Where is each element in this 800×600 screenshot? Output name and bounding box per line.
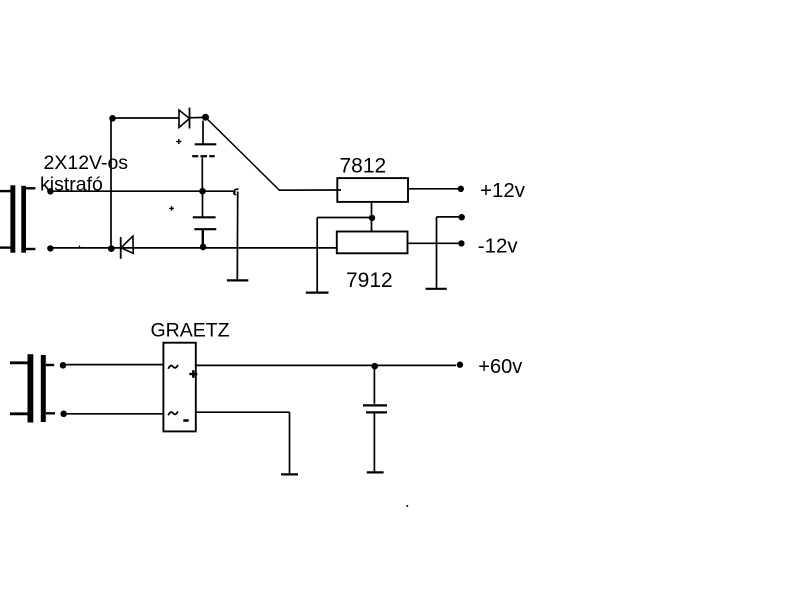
node dot T2 top terminal <box>60 362 67 369</box>
capacitor C1 plus sign <box>176 139 181 144</box>
capacitor C3 <box>363 367 387 471</box>
node dot T1 secondary bottom terminal <box>47 245 53 251</box>
wire middle rail (center tap) <box>47 190 233 192</box>
diode D1 <box>179 108 190 129</box>
bridge minus pin mark <box>183 419 188 422</box>
svg-text:GRAETZ: GRAETZ <box>151 320 230 342</box>
node dot filter capacitor tap <box>371 363 378 370</box>
capacitor C2 plus sign <box>169 206 174 211</box>
wire 7812 output <box>408 188 458 190</box>
wire hook from middle rail to ground drop <box>234 189 239 194</box>
ground 0v output <box>426 217 447 289</box>
transformer T2 core and winding stubs <box>10 354 55 422</box>
capacitor C2 <box>193 193 217 247</box>
node dot regulator common <box>369 215 375 221</box>
label +12v <box>480 179 526 202</box>
svg-text:+60v: +60v <box>478 356 522 378</box>
node dot middle rail capacitor junction <box>199 188 206 195</box>
wire common rail to ground <box>317 217 372 219</box>
label GRAETZ <box>151 320 230 342</box>
wire top node to diode D1 <box>112 117 180 119</box>
wire into 7812 input <box>279 189 341 191</box>
regulator U2 7912 <box>337 232 408 292</box>
svg-text:2X12V-os: 2X12V-os <box>44 152 129 174</box>
wire diode D1 to node <box>190 116 206 118</box>
wire vertical from top node to bottom rail <box>110 118 112 249</box>
node dot +60v terminal <box>457 362 463 368</box>
wire node to 7912 <box>371 218 373 232</box>
bridge rectifier GRAETZ box <box>163 343 195 432</box>
label 2X12V-os kistrafo <box>40 152 128 196</box>
node dot top left junction <box>109 115 116 122</box>
wire bottom rail <box>47 246 337 248</box>
wire 0v terminal to ground <box>437 216 459 218</box>
wire 7812 ground pin <box>371 202 373 218</box>
wire bridge plus output <box>196 364 456 366</box>
svg-text:-12v: -12v <box>478 235 519 258</box>
node dot T2 bottom terminal <box>60 411 67 418</box>
ground regulator common <box>306 218 329 293</box>
bridge plus pin mark <box>189 370 197 378</box>
node dot bottom rail left junction <box>108 245 115 252</box>
node dot -12v terminal <box>458 240 464 246</box>
ground center tap <box>227 192 248 281</box>
wire diagonal to 7812 input <box>206 118 279 190</box>
svg-text:7912: 7912 <box>346 269 393 292</box>
capacitor C1 <box>192 121 216 191</box>
node dot bottom rail capacitor junction <box>200 244 207 251</box>
node dot +12v terminal <box>458 186 464 192</box>
ground bridge minus <box>281 473 298 475</box>
node dot diode output <box>202 114 209 121</box>
svg-text:7812: 7812 <box>340 155 387 178</box>
wire T2 bottom to bridge <box>67 413 163 415</box>
wire T2 top to bridge <box>66 364 163 366</box>
label -12v <box>478 235 519 258</box>
ground capacitor C3 <box>367 471 384 473</box>
wire bridge minus output <box>196 412 290 474</box>
wire 7912 output <box>408 242 459 244</box>
transformer T1 core and winding stubs <box>0 185 35 252</box>
svg-text:+12v: +12v <box>480 179 526 202</box>
node dot T1 secondary top terminal <box>47 188 53 194</box>
regulator U1 7812 <box>337 155 408 202</box>
stray ink dot <box>406 505 408 507</box>
diode D2 <box>121 236 134 259</box>
label +60v <box>478 356 522 378</box>
node dot 0v terminal <box>459 214 465 220</box>
